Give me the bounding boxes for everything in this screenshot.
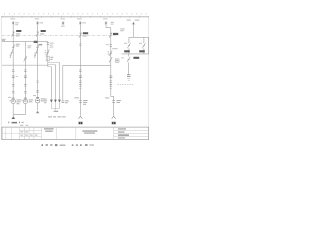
- supply terminal X0:2: [36, 21, 39, 25]
- faint text control left: [120, 28, 125, 31]
- wire K5 lower: [128, 48, 130, 54]
- ground PE2: [36, 111, 39, 114]
- cable tag: [54, 111, 59, 112]
- motor M1: [11, 99, 15, 103]
- M3 text right: [41, 98, 46, 101]
- terminal X0:3 text: [60, 18, 65, 26]
- motor M3: [35, 99, 39, 103]
- contactor contact -KM4: [46, 49, 50, 56]
- wire marks branch3: [36, 91, 39, 92]
- M1 text right: [17, 99, 22, 104]
- drop wire K6: [143, 37, 145, 43]
- terminal -X1:5: [109, 76, 112, 78]
- connector text right: [83, 100, 88, 105]
- wire marks branch2 mid: [24, 85, 27, 86]
- wire branch 5: [79, 25, 81, 116]
- status dot: [72, 144, 74, 146]
- circuit breaker -Q4: [109, 33, 112, 38]
- wire branch 6 top jog: [106, 25, 111, 28]
- revision columns: [6, 127, 20, 140]
- terminal -X1:2: [24, 76, 27, 78]
- contact -K6: [142, 43, 145, 48]
- status dash: [60, 145, 66, 146]
- cable arrow W1b: [54, 100, 57, 103]
- connector marks branch6: [112, 101, 115, 103]
- motor M1 terminal: [12, 97, 15, 99]
- drop wire K5: [128, 37, 130, 43]
- section divider dash-dot line: [2, 35, 119, 37]
- aux text: [50, 57, 53, 60]
- aux box branch6: [115, 59, 119, 63]
- motor M5 label blob: [111, 121, 116, 124]
- frame column numbers: [4, 13, 147, 14]
- coil -KM5: [127, 75, 130, 77]
- -Q2 value text: [40, 33, 44, 34]
- company name text: [82, 130, 97, 133]
- cable arrow W1c: [58, 100, 61, 103]
- circuit breaker -Q2: [36, 32, 39, 37]
- wire marks branch1 mid: [12, 85, 15, 86]
- control bus top: [129, 36, 149, 38]
- label -Q2: [41, 30, 46, 32]
- aux block branch4: [46, 57, 49, 61]
- -F4 trip ticks: [34, 54, 35, 57]
- ground PE3: [78, 116, 82, 119]
- note text row: [8, 122, 9, 124]
- cell text specks: [20, 131, 37, 135]
- -Q3 value text: [83, 36, 87, 37]
- label -Q3: [83, 32, 88, 34]
- supply terminal X0:5: [105, 21, 108, 25]
- -KM1 text: [16, 44, 20, 47]
- disconnect blade -KM3: [35, 45, 39, 58]
- -KM4 trip ticks: [45, 50, 46, 54]
- right block text: [118, 128, 129, 138]
- status faint text: [89, 144, 94, 145]
- dashed link line: [117, 84, 133, 86]
- power rail: [2, 64, 48, 66]
- label -K6: [139, 50, 145, 52]
- -KM3 label: [34, 41, 38, 43]
- revision mid line: [2, 132, 20, 134]
- drawing frame top edge: [1, 16, 149, 18]
- connector marks branch5: [79, 101, 82, 103]
- control feed wire: [133, 24, 135, 37]
- label -S1: [133, 57, 139, 59]
- circuit breaker -Q3: [79, 33, 82, 38]
- status glyph 4: [55, 144, 57, 146]
- circuit breaker -Q1: [12, 32, 15, 37]
- right block rows: [114, 131, 149, 137]
- -Q1 value text: [16, 33, 20, 36]
- info grid horizontals: [20, 130, 42, 136]
- wire marks branch3 upper: [36, 81, 39, 82]
- supply terminal X0:1: [12, 21, 15, 25]
- wire branch 3: [37, 25, 39, 98]
- motor M3 terminal: [36, 96, 39, 98]
- fuse branch6: [110, 45, 112, 47]
- disconnect blade -KM1: [10, 45, 14, 58]
- wire tick branch6: [110, 88, 113, 90]
- wire branch 2: [24, 42, 26, 99]
- fuse branch5: [79, 44, 81, 46]
- three-phase fan stubs: [48, 62, 60, 66]
- M2 text right: [29, 99, 33, 102]
- bus N y65 with corner down: [63, 66, 111, 101]
- wire below M2: [24, 104, 26, 114]
- -KM3 text right: [39, 44, 43, 46]
- control feed arrow: [132, 22, 135, 25]
- N end text: [65, 100, 69, 103]
- contact -S1: [127, 54, 130, 62]
- contact -K5: [127, 43, 130, 48]
- frame left edge: [0, 17, 2, 140]
- label -Q1: [16, 30, 21, 32]
- label -K5: [124, 50, 130, 52]
- terminal X0:5 text: [103, 18, 114, 24]
- wire branch 6: [111, 28, 114, 116]
- motor M2 terminal: [24, 97, 27, 99]
- branch6 text left: [105, 97, 109, 98]
- branch5 text left: [74, 97, 78, 98]
- status glyph 8: [85, 144, 88, 146]
- N end terminal marks: [62, 101, 65, 103]
- -F5 text: [50, 43, 54, 48]
- ground PE4: [112, 116, 116, 119]
- label -Q4: [113, 33, 118, 35]
- connector text right: [117, 100, 121, 103]
- status prev arrow: [75, 144, 77, 146]
- supply terminal X0:4: [79, 21, 82, 25]
- info grid verticals: [24, 127, 113, 140]
- -F2 trip ticks: [10, 54, 11, 57]
- coil lower marks: [127, 79, 130, 81]
- status glyph 3: [50, 144, 52, 146]
- wire tick branch5: [79, 88, 82, 90]
- wire below M1: [12, 104, 14, 114]
- title block specks above: [20, 125, 28, 126]
- -KM2 text: [28, 45, 32, 48]
- status glyph 2: [46, 144, 48, 146]
- motor M4 label blob: [78, 121, 83, 124]
- wire below M3: [37, 103, 39, 110]
- contactor contact -KM5a: [109, 49, 118, 56]
- control bus lower: [122, 53, 149, 55]
- -K6 text left: [139, 42, 142, 45]
- contactor contact second: [109, 57, 112, 62]
- terminal X0:2 text: [35, 18, 43, 23]
- wire marks branch1 low: [12, 92, 15, 93]
- wire branch 1: [12, 25, 14, 99]
- fuse -F5: [47, 43, 49, 45]
- wire branch 4: [47, 42, 49, 67]
- wire to coil: [128, 62, 130, 74]
- terminal -X1:1: [12, 76, 15, 78]
- cable arrow W1a: [50, 100, 53, 103]
- status next arrow: [80, 144, 82, 146]
- -S1 text left: [121, 56, 124, 59]
- supply terminal X0:3: [62, 21, 65, 25]
- frame right edge: [148, 17, 150, 140]
- title block frame: [2, 127, 149, 140]
- wire marks branch5 upper: [79, 70, 82, 71]
- cable designation text: [48, 116, 66, 117]
- PE join wire: [13, 114, 26, 116]
- ground PE1: [11, 116, 15, 119]
- frame column ticks: [3, 16, 149, 18]
- wire K6 lower: [143, 48, 145, 54]
- wire marks branch5 mid: [79, 81, 82, 86]
- bus label text left: [2, 39, 6, 41]
- main bus L0 y41.6: [2, 41, 48, 43]
- control bus right riser: [147, 37, 149, 54]
- contactor contact -KM2: [24, 56, 27, 62]
- wire marks branch2 upper: [24, 70, 27, 71]
- wire marks branch6 mid: [110, 81, 113, 86]
- terminal X0:4 text: [77, 18, 86, 23]
- terminal X0:1 text: [10, 18, 19, 25]
- date cell text: [44, 128, 54, 131]
- control feed text: [127, 20, 140, 21]
- wire marks branch1 upper: [12, 70, 15, 71]
- motor M2: [23, 99, 27, 103]
- -K5 text left: [124, 42, 127, 45]
- status bar back glyph: [41, 144, 43, 146]
- cable drop wires: [51, 62, 59, 100]
- cable join wires: [51, 103, 59, 110]
- terminal -X1:4: [79, 76, 82, 78]
- -KM5a trip ticks: [108, 51, 109, 55]
- cable text left: [44, 99, 47, 104]
- wire marks branch2 low: [24, 92, 27, 93]
